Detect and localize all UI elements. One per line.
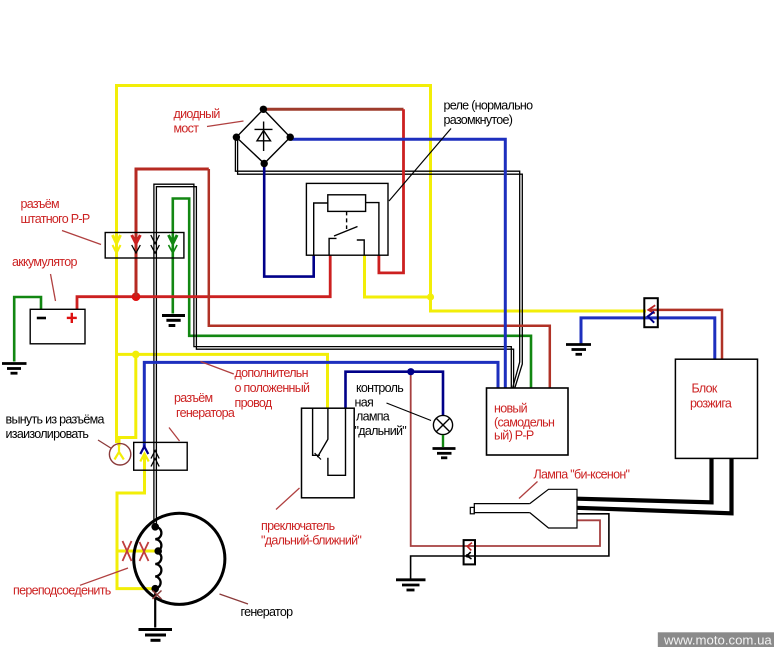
relay K1 outer box [306, 183, 388, 255]
node generator top [151, 523, 159, 531]
wire red from diode bridge top node [263, 108, 403, 111]
node bridge bottom [261, 160, 268, 167]
label ignition box [690, 382, 732, 411]
svg-text:мост: мост [174, 122, 200, 136]
pointer diode bridge [207, 121, 244, 127]
node yellow junction [427, 293, 434, 300]
pointer stock connector [62, 231, 101, 245]
battery minus sign [37, 317, 46, 320]
node navy junction [407, 368, 414, 375]
arrow navy in top-right connector [648, 312, 654, 323]
bixenon lamp tube [474, 504, 530, 513]
mark X crossed old wire 1 [123, 541, 132, 561]
ground bixenon [396, 580, 426, 590]
svg-text:генератор: генератор [241, 605, 294, 619]
wire red from top-right connector to ignition box [650, 310, 722, 359]
pointer generator connector [169, 428, 180, 442]
arrow red in stock connector [132, 235, 141, 253]
label new P-P [494, 402, 555, 443]
svg-text:переподсоеденить: переподсоеденить [13, 584, 111, 598]
wire generator to ground [154, 589, 156, 628]
label generator connector [174, 391, 235, 420]
wire black generator pair hoop (inner) [156, 187, 513, 527]
label additional wire [235, 366, 311, 410]
node generator bottom [151, 585, 159, 593]
wire blue ground run through top-right connector to ignition box [581, 318, 715, 359]
ground battery [2, 364, 27, 374]
svg-text:диодный: диодный [174, 107, 221, 121]
wire thick black upper to ignition box [577, 459, 712, 503]
new P-P box [487, 388, 569, 455]
svg-text:разъём: разъём [21, 197, 59, 211]
svg-text:вынуть из разъёма: вынуть из разъёма [6, 413, 105, 427]
wire red from stock connector top hook [136, 169, 209, 297]
connector top-right inline [644, 298, 658, 327]
node red junction [132, 292, 141, 301]
pointer switch [276, 488, 300, 510]
wire green control lamp to ground [442, 435, 444, 447]
arrow red in bixenon connector [467, 543, 472, 551]
wire blue additional wire from generator connector [144, 362, 498, 447]
relay coil left lead [314, 203, 328, 255]
wire yellow to switch [117, 354, 328, 408]
wire black pair from diode bridge left node (line 2) [238, 137, 523, 388]
svg-text:"дальний-ближний": "дальний-ближний" [261, 534, 361, 548]
node yellow junction at connector drop [132, 351, 140, 359]
svg-text:дополнительн: дополнительн [235, 366, 309, 380]
svg-text:"дальний": "дальний" [355, 424, 407, 438]
bixenon lamp body [530, 489, 577, 528]
svg-text:лампа: лампа [356, 410, 390, 424]
wire yellow main loop: left riser, top run, right drop to relay junction, run to bixenon connector [117, 86, 647, 444]
node bridge right [287, 134, 294, 141]
wire black bixenon return to ground [411, 514, 609, 579]
wire yellow pulled-out end inside circle [115, 446, 124, 460]
label control lamp [355, 381, 407, 438]
label relay [444, 99, 534, 128]
label diode bridge [174, 107, 221, 136]
connector generator box [134, 442, 188, 470]
svg-text:ый) Р-Р: ый) Р-Р [494, 429, 534, 443]
relay coil [328, 195, 366, 212]
relay armature dashed link [346, 211, 348, 229]
control lamp circle with cross [433, 415, 452, 434]
svg-text:Лампа "би-ксенон": Лампа "би-ксенон" [534, 468, 630, 482]
ground top-right [566, 345, 591, 355]
svg-text:аккумулятор: аккумулятор [12, 255, 77, 269]
circle pulled-out wire marker [109, 444, 130, 465]
arrow black in generator connector [151, 451, 159, 467]
node bridge top [260, 106, 267, 113]
pointer additional wire [201, 362, 234, 375]
battery plus sign [67, 313, 77, 323]
arrow red in top-right connector [648, 305, 655, 313]
switch box dalniy-blizhniy [302, 408, 355, 498]
wire red control-lamp junction down to bixenon lamp [411, 372, 600, 546]
wire black pair from diode bridge left node to new P-P box (line 1) [235, 137, 519, 388]
connector stock P-P box [105, 233, 184, 259]
svg-text:преключатель: преключатель [261, 519, 335, 533]
generator coil [155, 527, 161, 589]
wire black generator pair hoop (outer) [154, 184, 511, 526]
label stock connector [21, 197, 90, 226]
ground control lamp [433, 449, 456, 458]
svg-text:реле (нормально: реле (нормально [444, 99, 534, 113]
bixenon lamp cap [470, 507, 474, 513]
connector bixenon inline [464, 540, 475, 564]
svg-text:розжига: розжига [690, 397, 732, 411]
svg-text:контроль: контроль [356, 381, 403, 395]
arrow navy in generator connector [140, 447, 148, 455]
arrow yellow in stock connector [113, 235, 121, 253]
mark X crossed old wire 2 [140, 542, 149, 561]
arrow black in stock connector [151, 235, 160, 253]
relay right contact post [357, 240, 364, 255]
pointer control lamp [387, 403, 432, 421]
switch contact A [313, 408, 320, 455]
svg-text:разъём: разъём [174, 391, 212, 405]
wire thick black lower to ignition box [577, 459, 732, 514]
wire blue diode bridge right node to new P-P box [290, 139, 505, 388]
wire green generator hoop to new P-P box [173, 199, 531, 389]
wire red battery plus rail to relay [77, 255, 330, 309]
arrow green in stock connector [169, 235, 178, 253]
relay lever [334, 227, 358, 237]
label switch [261, 519, 361, 548]
battery box [30, 309, 85, 344]
svg-text:изаизолировать: изаизолировать [6, 427, 89, 441]
svg-text:о положенный: о положенный [235, 381, 311, 395]
relay left contact post [329, 238, 336, 255]
switch contact B with lever [317, 408, 328, 457]
label pulled-out wire [6, 413, 105, 441]
pointer reconnect [80, 568, 128, 585]
wire navy diode bridge bottom to relay [264, 164, 314, 277]
wire yellow from generator connector down to generator [117, 456, 155, 589]
pointer pulled-out wire [98, 440, 112, 449]
svg-text:новый: новый [494, 402, 528, 416]
ground generator [139, 630, 173, 641]
pointer bixenon lamp [519, 482, 538, 499]
relay coil right lead [366, 203, 379, 256]
switch contact C [328, 408, 346, 475]
svg-text:Блок: Блок [692, 382, 718, 396]
svg-text:ная: ная [355, 396, 374, 410]
mark X at generator bottom node [153, 591, 162, 600]
arrow yellow in generator connector [140, 454, 148, 462]
svg-text:генератора: генератора [176, 406, 235, 420]
ignition box [675, 359, 757, 458]
switch lever tick [315, 453, 321, 460]
generator circle [134, 513, 225, 604]
diode bridge diamond [236, 109, 290, 163]
watermark bar [658, 632, 774, 647]
wire navy switch to control lamp [346, 372, 444, 416]
svg-text:разомкнутое): разомкнутое) [444, 113, 513, 127]
diode symbol inside bridge [255, 122, 273, 152]
svg-text:www.moto.com.ua: www.moto.com.ua [663, 632, 772, 647]
svg-text:провод: провод [235, 396, 273, 410]
pointer generator [220, 594, 249, 604]
ground green near stock connector [162, 316, 185, 326]
pointer relay [389, 129, 451, 202]
node generator middle tap [154, 547, 162, 555]
wire yellow old branch to middle tap (crossed out) [117, 550, 156, 553]
wire red bridge to relay [379, 109, 404, 273]
pointer battery [51, 274, 56, 301]
node bridge left [233, 134, 240, 141]
wire green battery negative to ground [14, 297, 41, 362]
wire yellow drop from junction to pulled-out end [119, 354, 136, 446]
wire red long run to new P-P box [209, 169, 550, 388]
wire yellow relay branch [365, 255, 431, 297]
svg-text:штатного Р-Р: штатного Р-Р [21, 212, 90, 226]
svg-text:(самодельн: (самодельн [494, 416, 555, 430]
arrow black in bixenon connector [467, 552, 472, 559]
